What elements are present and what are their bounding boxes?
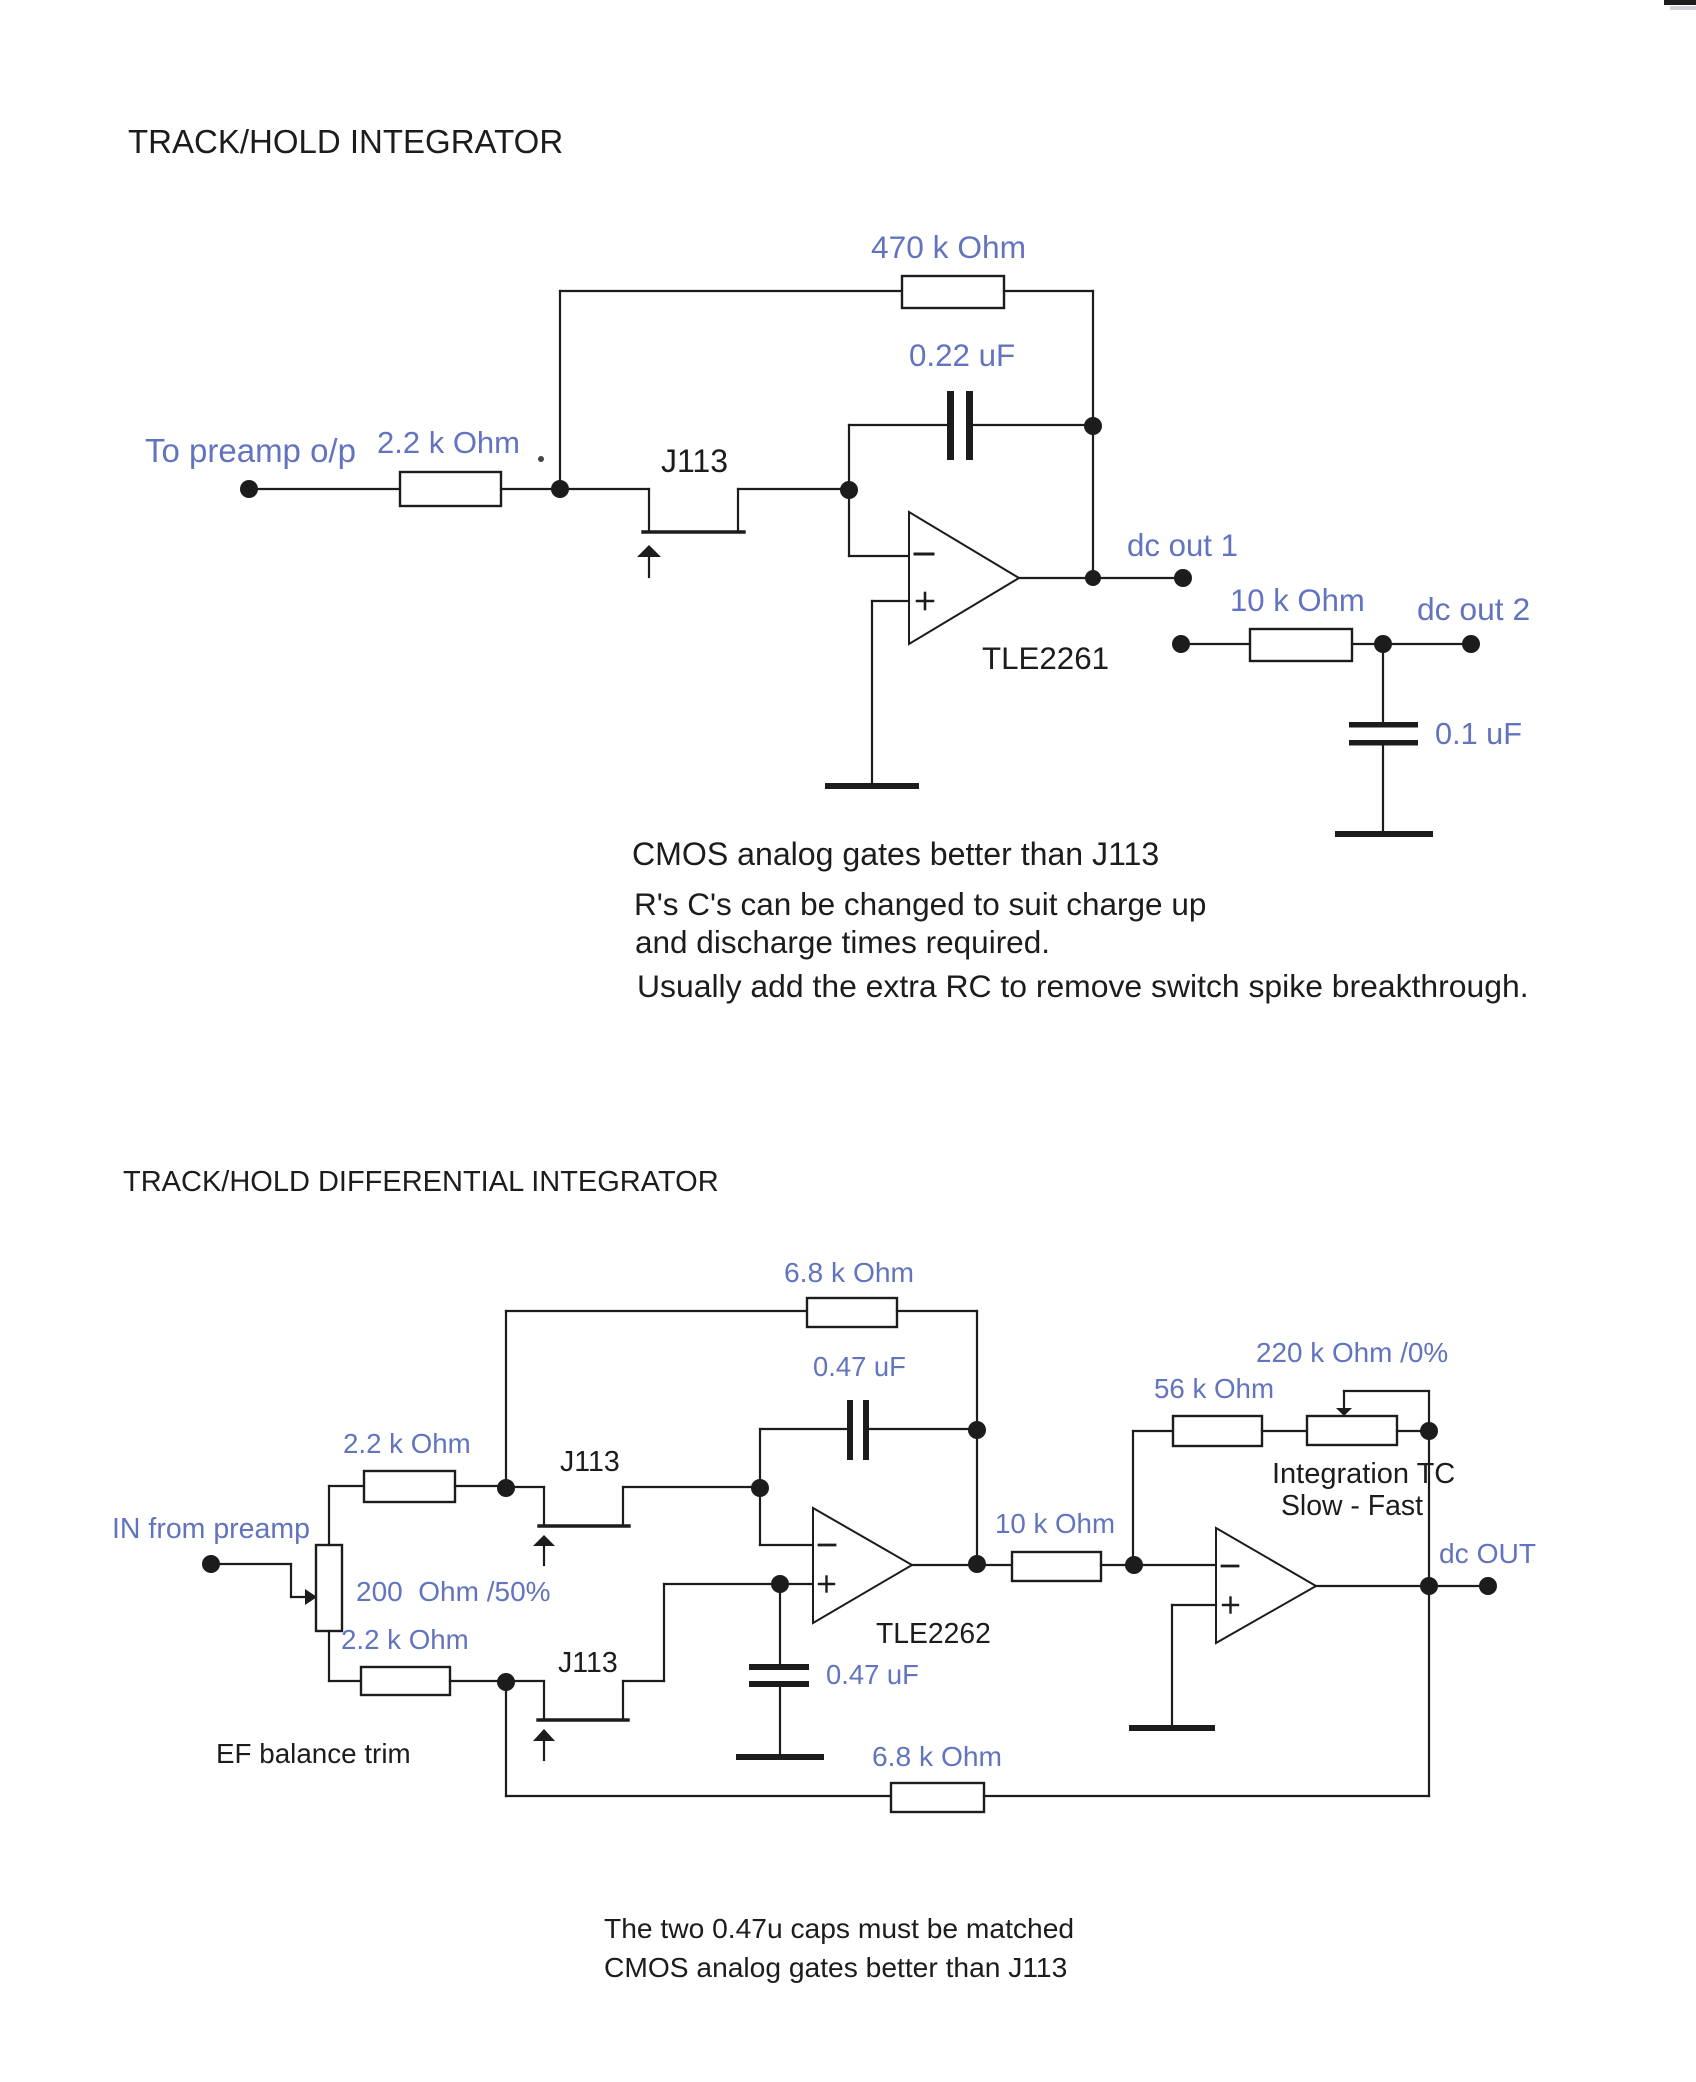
wire R5 to node C [455, 1485, 506, 1487]
resistor R1 2.2 k Ohm [400, 472, 501, 506]
wire VR1 top to R5 [329, 1486, 364, 1545]
ground G1 [828, 783, 916, 789]
wire Q2 source to node D [623, 1486, 760, 1488]
svg-text:Slow - Fast: Slow - Fast [1281, 1490, 1423, 1522]
wire bottom feedback right [984, 1795, 1429, 1797]
node output/feedback junction [1085, 570, 1101, 586]
node C junction [497, 1479, 515, 1497]
svg-text:dc OUT: dc OUT [1439, 1537, 1536, 1569]
node C3/feedback junction [968, 1421, 986, 1439]
node C1/feedback junction [1084, 417, 1102, 435]
wire C1 left lead [849, 424, 947, 426]
VR2 wiper arrow and link [1336, 1391, 1429, 1431]
wire op-amp plus input left [872, 600, 909, 602]
svg-text:2.2 k Ohm: 2.2 k Ohm [343, 1428, 471, 1459]
potentiometer VR1 200 Ohm body [316, 1545, 342, 1631]
node G junction (U3 minus net) [1125, 1556, 1143, 1574]
wire feedback top right [897, 1310, 977, 1312]
svg-text:TRACK/HOLD INTEGRATOR: TRACK/HOLD INTEGRATOR [128, 123, 563, 160]
svg-text:2.2 k Ohm: 2.2 k Ohm [377, 425, 520, 460]
svg-text:CMOS analog gates better than: CMOS analog gates better than J113 [632, 836, 1159, 872]
wire R6 to node E [450, 1680, 506, 1682]
ground G2 [1338, 831, 1430, 837]
op-amp U3 (second half TLE2262) [1216, 1528, 1316, 1643]
wire VR1 bottom to R6 [329, 1631, 361, 1681]
wire node D down to U2 minus [760, 1488, 813, 1545]
node D junction [751, 1479, 769, 1497]
resistor R5 2.2 k Ohm (upper) [364, 1471, 455, 1502]
wire plus input down to ground [871, 601, 873, 784]
wire node A to JFET drain [560, 488, 649, 490]
svg-text:Usually add the extra RC to re: Usually add the extra RC to remove switc… [637, 968, 1529, 1004]
wire feedback right vertical [976, 1311, 978, 1565]
resistor R6 2.2 k Ohm (lower) [361, 1667, 450, 1695]
op-amp U2 TLE2262 [813, 1508, 912, 1623]
wire node E down to bottom feedback [505, 1682, 507, 1796]
node: To preamp o/p input terminal [240, 480, 258, 498]
ground G3 [739, 1754, 821, 1760]
wire node G up to 56k [1133, 1431, 1173, 1565]
svg-text:TLE2262: TLE2262 [876, 1617, 991, 1649]
capacitor C4 0.47 uF (lower) [749, 1664, 809, 1687]
transistor Q1 J113 JFET [637, 489, 744, 577]
op-amp U1 TLE2261 [909, 512, 1019, 644]
wire U3 output to dc OUT [1316, 1585, 1488, 1587]
node U3 output junction [1420, 1577, 1438, 1595]
capacitor C3 0.47 uF (upper) [847, 1400, 869, 1460]
svg-text:dc out 2: dc out 2 [1417, 591, 1530, 627]
wire U1 output to dc out 1 [1019, 577, 1183, 579]
wire input to pot wiper [211, 1564, 307, 1597]
potentiometer VR2 220 k Ohm body [1307, 1416, 1397, 1445]
svg-text:EF balance trim: EF balance trim [216, 1738, 411, 1769]
wire bottom feedback left [506, 1795, 891, 1797]
capacitor C2 0.1 uF [1349, 722, 1418, 746]
wire feedback right vertical [1092, 291, 1094, 578]
pot VR1 200 Ohm wiper arrow [305, 1589, 317, 1605]
svg-text:0.1 uF: 0.1 uF [1435, 716, 1522, 751]
svg-text:2.2 k Ohm: 2.2 k Ohm [341, 1624, 469, 1655]
wire node B down to op-amp minus [848, 490, 850, 556]
wire node A up to feedback [559, 291, 561, 489]
node dc out 1 terminal [1174, 569, 1192, 587]
wire Q1 source to node B [738, 488, 849, 490]
svg-text:R's C's can be changed to suit: R's C's can be changed to suit charge up [634, 886, 1206, 922]
resistor R9 6.8 k Ohm (bottom feedback) [891, 1783, 984, 1812]
svg-text:10 k Ohm: 10 k Ohm [1230, 583, 1365, 618]
wire C3 right lead [869, 1428, 977, 1430]
scanner mark top right corner [1664, 0, 1696, 10]
node U2 output junction [968, 1555, 986, 1573]
svg-text:CMOS analog gates better than: CMOS analog gates better than J113 [604, 1951, 1067, 1983]
svg-text:6.8 k Ohm: 6.8 k Ohm [784, 1256, 914, 1288]
ground G4 [1132, 1725, 1212, 1731]
wire R3 to dc out 2 [1352, 643, 1471, 645]
wire feedback top left [560, 290, 902, 292]
wire feedback top left [506, 1310, 807, 1312]
stray ink dot [538, 456, 544, 462]
node B junction (inverting input net) [840, 481, 858, 499]
wire C3 left lead [760, 1428, 847, 1430]
node A junction [551, 480, 569, 498]
wire node C up to feedback R4 [505, 1311, 507, 1486]
wire R7 to U3 minus [1101, 1564, 1216, 1566]
wire R8 to VR2 [1262, 1430, 1307, 1432]
svg-text:J113: J113 [661, 443, 728, 479]
svg-text:IN from preamp: IN from preamp [112, 1513, 310, 1545]
wire feedback top right [1004, 290, 1093, 292]
wire node D up to C3 [759, 1429, 761, 1487]
resistor R8 56 k Ohm [1173, 1416, 1262, 1446]
svg-text:470 k Ohm: 470 k Ohm [871, 229, 1026, 265]
transistor Q2 J113 JFET (upper) [506, 1487, 629, 1565]
wire into op-amp minus input [849, 555, 909, 557]
node E junction [497, 1673, 515, 1691]
svg-text:200 Ohm /50%: 200 Ohm /50% [356, 1576, 551, 1607]
resistor R2 470 k Ohm [902, 276, 1004, 308]
svg-text:6.8 k Ohm: 6.8 k Ohm [872, 1740, 1002, 1772]
wire U3 plus input [1172, 1605, 1216, 1726]
wire to R3 [1181, 643, 1250, 645]
transistor Q3 J113 JFET (lower) [506, 1681, 628, 1760]
svg-text:J113: J113 [558, 1647, 618, 1679]
svg-text:and discharge times required.: and discharge times required. [635, 924, 1050, 960]
wire C1 right lead [973, 424, 1093, 426]
svg-text:The two 0.47u caps must be mat: The two 0.47u caps must be matched [604, 1912, 1074, 1944]
wire junction down to C2 [1382, 644, 1384, 722]
node R3/C2 junction [1374, 635, 1392, 653]
resistor R7 10 k Ohm [1012, 1552, 1101, 1581]
node F junction (plus input / C4) [771, 1575, 789, 1593]
node dc OUT terminal [1479, 1577, 1497, 1595]
svg-text:J113: J113 [560, 1446, 620, 1478]
wire R1 to node A [501, 488, 560, 490]
wire node F down to C4 [779, 1584, 781, 1664]
svg-text:To preamp o/p: To preamp o/p [145, 432, 356, 469]
wire Q3 source to U2 plus [623, 1584, 813, 1681]
svg-text:10 k Ohm: 10 k Ohm [995, 1508, 1115, 1539]
svg-text:0.47 uF: 0.47 uF [826, 1659, 919, 1690]
wire C2 down to ground [1382, 745, 1384, 831]
svg-text:220 k Ohm /0%: 220 k Ohm /0% [1256, 1337, 1448, 1368]
wire input to R1 [249, 488, 400, 490]
node dc out 2 terminal [1462, 635, 1480, 653]
capacitor C1 0.22 uF [947, 391, 973, 460]
svg-text:56 k Ohm: 56 k Ohm [1154, 1373, 1274, 1404]
svg-text:TRACK/HOLD DIFFERENTIAL INTEGR: TRACK/HOLD DIFFERENTIAL INTEGRATOR [123, 1166, 719, 1198]
wire VR2 right to node H [1397, 1430, 1429, 1432]
node dc out 2 row left terminal [1172, 635, 1190, 653]
svg-text:Integration TC: Integration TC [1272, 1458, 1455, 1490]
wire C4 down to ground [779, 1687, 781, 1754]
wire node H down to output and bottom feedback [1428, 1431, 1430, 1796]
wire node B up to C1 [848, 425, 850, 490]
svg-text:TLE2261: TLE2261 [982, 641, 1109, 676]
svg-text:dc out 1: dc out 1 [1127, 528, 1238, 563]
node: IN from preamp input terminal [202, 1555, 220, 1573]
wire U2 output to R7 [912, 1564, 1012, 1566]
svg-text:0.22 uF: 0.22 uF [909, 338, 1015, 373]
resistor R4 6.8 k Ohm (top feedback) [807, 1298, 897, 1327]
svg-text:0.47 uF: 0.47 uF [813, 1351, 906, 1382]
node H junction [1420, 1422, 1438, 1440]
resistor R3 10 k Ohm [1250, 629, 1352, 661]
